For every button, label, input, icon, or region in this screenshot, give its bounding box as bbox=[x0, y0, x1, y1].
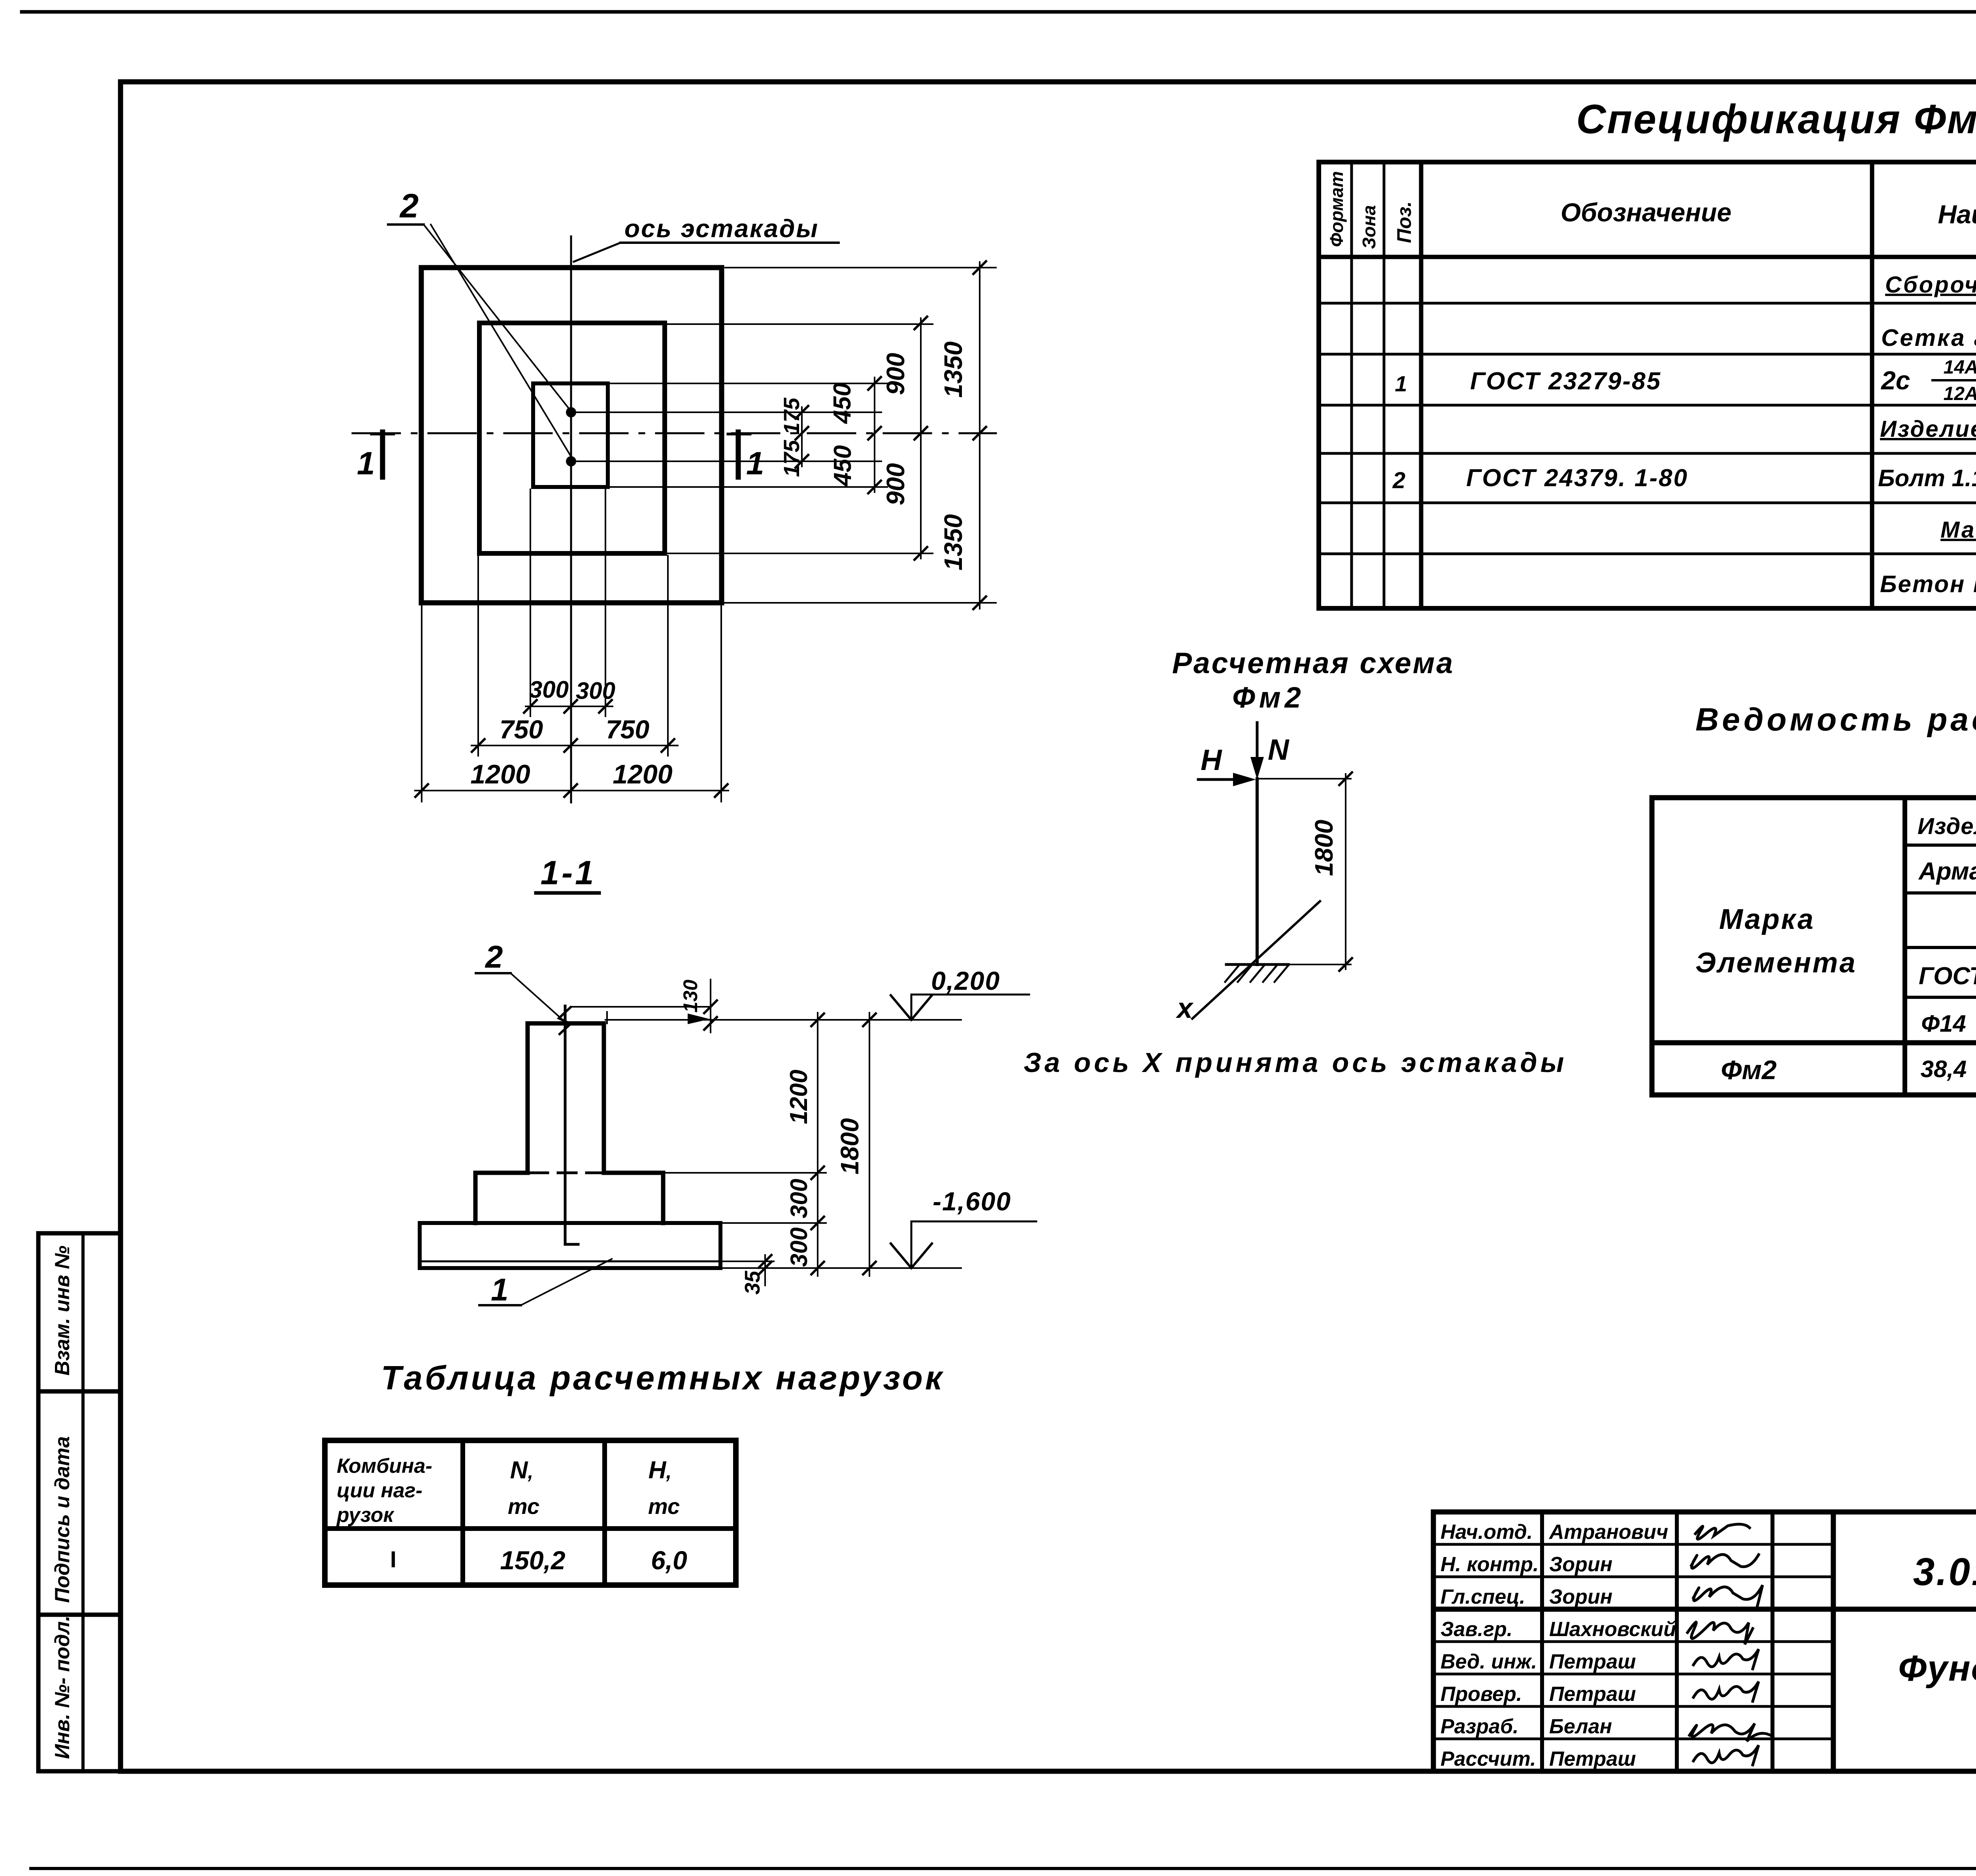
svg-text:2: 2 bbox=[1392, 468, 1405, 493]
svg-text:Сборочные единицы: Сборочные единицы bbox=[1885, 272, 1976, 298]
svg-text:Петраш: Петраш bbox=[1549, 1650, 1636, 1673]
svg-text:Разраб.: Разраб. bbox=[1441, 1715, 1518, 1738]
svg-text:Марка: Марка bbox=[1719, 904, 1815, 935]
svg-text:1-1: 1-1 bbox=[541, 854, 596, 892]
svg-text:Болт 1.1. М36 ×1700 Ст3пс: Болт 1.1. М36 ×1700 Ст3пс bbox=[1878, 465, 1976, 491]
svg-text:Комбина-: Комбина- bbox=[337, 1455, 432, 1478]
svg-text:Фм2: Фм2 bbox=[1721, 1055, 1776, 1085]
svg-text:14АIII: 14АIII bbox=[1944, 357, 1976, 378]
svg-text:Изделия Арматурные: Изделия Арматурные bbox=[1918, 813, 1976, 839]
svg-text:2с: 2с bbox=[1880, 366, 1910, 395]
svg-text:35: 35 bbox=[741, 1270, 764, 1295]
svg-text:450: 450 bbox=[829, 383, 856, 424]
svg-text:1: 1 bbox=[491, 1272, 509, 1307]
svg-text:Н. контр.: Н. контр. bbox=[1441, 1553, 1539, 1576]
svg-text:ось эстакады: ось эстакады bbox=[624, 214, 819, 243]
svg-text:Арматура класса: Арматура класса bbox=[1918, 858, 1976, 885]
svg-text:Петраш: Петраш bbox=[1549, 1683, 1636, 1706]
svg-text:х: х bbox=[1175, 993, 1194, 1024]
svg-text:Таблица расчетных нагрузок: Таблица расчетных нагрузок bbox=[381, 1359, 945, 1397]
svg-text:Формат: Формат bbox=[1326, 171, 1347, 247]
svg-text:300: 300 bbox=[529, 676, 569, 703]
svg-text:300: 300 bbox=[786, 1227, 812, 1267]
svg-text:тс: тс bbox=[648, 1494, 680, 1519]
svg-text:Поз.: Поз. bbox=[1393, 201, 1415, 243]
svg-text:Нач.отд.: Нач.отд. bbox=[1441, 1521, 1533, 1544]
svg-text:130: 130 bbox=[679, 980, 701, 1013]
svg-text:Наименование: Наименование bbox=[1938, 200, 1976, 229]
svg-text:ции наг-: ции наг- bbox=[337, 1479, 422, 1502]
svg-text:1800: 1800 bbox=[835, 1118, 864, 1174]
svg-text:175: 175 bbox=[779, 440, 804, 477]
svg-text:900: 900 bbox=[881, 353, 910, 395]
svg-text:Ведомость расхода стали на эле: Ведомость расхода стали на элемент, кг bbox=[1695, 702, 1976, 738]
svg-text:1: 1 bbox=[357, 445, 375, 481]
svg-text:Зорин: Зорин bbox=[1549, 1585, 1612, 1608]
svg-text:Зона: Зона bbox=[1359, 205, 1379, 249]
svg-text:Провер.: Провер. bbox=[1441, 1683, 1522, 1706]
svg-text:1200: 1200 bbox=[613, 759, 672, 789]
svg-text:Н,: Н, bbox=[649, 1457, 672, 1484]
svg-text:1350: 1350 bbox=[939, 342, 967, 398]
svg-text:Атранович: Атранович bbox=[1548, 1521, 1668, 1544]
svg-text:Фм2: Фм2 bbox=[1232, 681, 1305, 714]
svg-text:Инв. №- подл.: Инв. №- подл. bbox=[51, 1616, 74, 1759]
svg-text:1800: 1800 bbox=[1310, 820, 1338, 876]
svg-text:N,: N, bbox=[510, 1457, 534, 1484]
svg-text:3.015. 2-15. 4 - 2: 3.015. 2-15. 4 - 2 bbox=[1913, 1550, 1976, 1593]
svg-text:N: N bbox=[1268, 733, 1290, 766]
svg-text:38,4: 38,4 bbox=[1921, 1056, 1967, 1082]
svg-text:За ось X принята ось эстакады: За ось X принята ось эстакады bbox=[1024, 1047, 1567, 1078]
svg-text:Гл.спец.: Гл.спец. bbox=[1441, 1585, 1525, 1608]
svg-text:12АIII: 12АIII bbox=[1944, 383, 1976, 404]
svg-text:750: 750 bbox=[606, 715, 649, 744]
svg-text:рузок: рузок bbox=[336, 1504, 395, 1527]
svg-text:150,2: 150,2 bbox=[500, 1546, 565, 1575]
svg-text:Взам. инв №: Взам. инв № bbox=[51, 1246, 74, 1376]
svg-text:Сетка арматурная: Сетка арматурная bbox=[1881, 325, 1976, 351]
svg-text:Обозначение: Обозначение bbox=[1561, 198, 1731, 227]
svg-text:Зав.гр.: Зав.гр. bbox=[1441, 1618, 1512, 1641]
svg-text:Рассчит.: Рассчит. bbox=[1441, 1748, 1536, 1770]
svg-text:300: 300 bbox=[576, 678, 615, 704]
svg-text:300: 300 bbox=[786, 1179, 812, 1218]
svg-text:ГОСТ 23279-85: ГОСТ 23279-85 bbox=[1470, 368, 1661, 395]
svg-text:ГОСТ 5781-82*: ГОСТ 5781-82* bbox=[1919, 962, 1976, 990]
svg-text:Бетон класса В15: Бетон класса В15 bbox=[1880, 571, 1976, 597]
svg-text:2: 2 bbox=[485, 939, 503, 974]
svg-text:Петраш: Петраш bbox=[1549, 1748, 1636, 1770]
svg-text:Н: Н bbox=[1201, 744, 1222, 776]
svg-text:Зорин: Зорин bbox=[1549, 1553, 1612, 1576]
svg-text:Подпись и дата: Подпись и дата bbox=[51, 1436, 74, 1603]
svg-text:Белан: Белан bbox=[1549, 1715, 1612, 1738]
svg-text:Ф14: Ф14 bbox=[1921, 1010, 1966, 1037]
svg-text:750: 750 bbox=[500, 715, 543, 744]
svg-text:-1,600: -1,600 bbox=[933, 1187, 1011, 1216]
svg-text:Вед. инж.: Вед. инж. bbox=[1441, 1650, 1537, 1673]
svg-text:6,0: 6,0 bbox=[651, 1546, 687, 1575]
svg-text:Фундамент Фм2: Фундамент Фм2 bbox=[1898, 1648, 1976, 1689]
svg-text:Спецификация Фм2: Спецификация Фм2 bbox=[1576, 96, 1976, 142]
svg-text:175: 175 bbox=[779, 397, 804, 434]
svg-text:Элемента: Элемента bbox=[1695, 947, 1857, 979]
svg-text:ГОСТ 24379. 1-80: ГОСТ 24379. 1-80 bbox=[1466, 464, 1688, 492]
svg-text:1: 1 bbox=[1395, 371, 1407, 396]
svg-text:тс: тс bbox=[508, 1494, 539, 1519]
svg-text:Материалы: Материалы bbox=[1940, 517, 1976, 543]
svg-text:Шахновский: Шахновский bbox=[1549, 1618, 1676, 1641]
svg-text:450: 450 bbox=[829, 445, 856, 487]
svg-text:1200: 1200 bbox=[470, 759, 530, 789]
svg-text:I: I bbox=[390, 1547, 396, 1572]
svg-text:1200: 1200 bbox=[785, 1070, 813, 1124]
svg-text:Расчетная схема: Расчетная схема bbox=[1172, 646, 1454, 679]
svg-text:2: 2 bbox=[399, 187, 419, 225]
svg-text:0,200: 0,200 bbox=[931, 966, 1000, 995]
svg-text:Изделие закладное: Изделие закладное bbox=[1880, 416, 1976, 442]
svg-text:1350: 1350 bbox=[939, 514, 967, 570]
svg-text:900: 900 bbox=[881, 463, 910, 506]
svg-text:1: 1 bbox=[746, 445, 764, 481]
